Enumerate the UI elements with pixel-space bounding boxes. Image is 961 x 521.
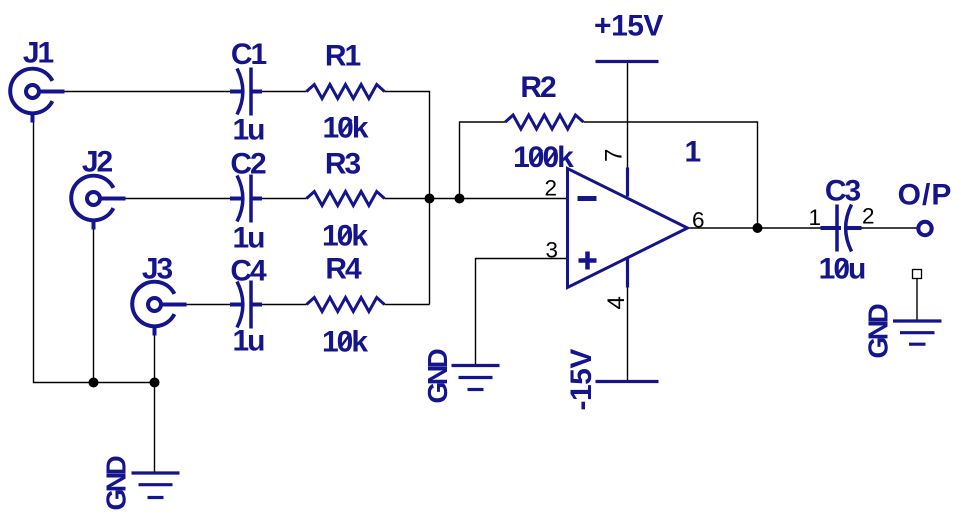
unconnected pad square	[913, 270, 922, 279]
pin number 7	[601, 149, 628, 162]
wire C4 to R4 and corner up	[262, 304, 430, 306]
power +15V	[594, 10, 663, 62]
svg-text:1: 1	[809, 205, 822, 230]
pin number 1 (C3)	[809, 205, 822, 230]
wire C1 to R1	[262, 91, 307, 93]
slashed zero marks	[340, 120, 848, 349]
svg-text:2: 2	[544, 176, 557, 201]
wire feedback net R2	[460, 122, 758, 228]
resistor R2	[505, 71, 583, 174]
wire J3 to C4	[187, 304, 231, 306]
ground (right, output)	[863, 304, 942, 359]
junction node output	[753, 223, 763, 233]
op-amp U1	[568, 136, 701, 288]
resistor R3	[307, 148, 385, 253]
capacitor C2	[230, 148, 266, 255]
output terminal O/P	[898, 179, 953, 236]
pin number 4	[603, 296, 630, 309]
svg-text:1u: 1u	[232, 222, 264, 255]
wire output square pad to ground	[916, 279, 918, 320]
wire C3 to O/P terminal	[862, 227, 919, 229]
capacitor C4	[230, 255, 267, 358]
svg-text:J1: J1	[23, 37, 54, 70]
svg-text:2: 2	[862, 204, 875, 229]
svg-text:J3: J3	[142, 253, 173, 286]
pin number 6	[692, 208, 705, 233]
svg-text:R1: R1	[325, 40, 361, 73]
svg-text:GND: GND	[101, 456, 132, 511]
ground (left, input bus)	[101, 456, 180, 511]
svg-text:C4: C4	[230, 255, 267, 288]
wire J1 to C1	[65, 91, 231, 93]
svg-text:R3: R3	[325, 148, 361, 181]
capacitor C1	[230, 38, 266, 147]
svg-text:GND: GND	[422, 349, 453, 404]
svg-text:J2: J2	[82, 146, 113, 179]
svg-text:C2: C2	[230, 148, 266, 181]
junction node ground bus J2	[89, 378, 99, 388]
svg-text:3: 3	[545, 238, 558, 263]
svg-text:6: 6	[692, 208, 705, 233]
svg-text:O/P: O/P	[898, 179, 953, 212]
svg-text:C3: C3	[825, 175, 861, 208]
wire J2 to C2	[126, 198, 231, 200]
capacitor C3	[819, 175, 865, 286]
pin number 2	[544, 176, 557, 201]
connector J1	[10, 37, 64, 123]
wire +15V to pin 7	[627, 63, 629, 169]
svg-text:1u: 1u	[232, 114, 264, 147]
wire ground bus left	[34, 123, 155, 472]
resistor R4	[307, 253, 385, 359]
wire op-amp output to C3	[688, 227, 821, 229]
svg-text:1u: 1u	[232, 325, 264, 358]
wire pin 3 to ground	[476, 259, 568, 365]
pin number 3	[545, 238, 558, 263]
junction node ground bus J3	[150, 378, 160, 388]
svg-text:-15V: -15V	[565, 349, 598, 411]
resistor R1	[307, 40, 385, 145]
junction node at R bus / pin2 net	[425, 194, 435, 204]
svg-text:1: 1	[685, 136, 701, 169]
wire R1 right corner down to node bus	[385, 92, 430, 305]
connector J3	[132, 253, 186, 336]
wire C2/R3 row to op-amp pin 2	[262, 198, 568, 200]
connector J2	[71, 146, 125, 230]
svg-text:100k: 100k	[513, 141, 574, 174]
svg-text:R2: R2	[520, 71, 556, 104]
power -15V	[565, 349, 659, 411]
ground (middle, op-amp pin 3)	[422, 349, 500, 404]
svg-text:4: 4	[603, 296, 630, 309]
svg-text:C1: C1	[231, 38, 267, 71]
svg-text:7: 7	[601, 149, 628, 162]
svg-text:+15V: +15V	[594, 10, 663, 43]
pin number 2 (C3)	[862, 204, 875, 229]
wire pin 4 to -15V	[627, 288, 629, 381]
junction node feedback tap	[455, 194, 465, 204]
svg-text:R4: R4	[325, 253, 362, 286]
svg-text:GND: GND	[863, 304, 894, 359]
